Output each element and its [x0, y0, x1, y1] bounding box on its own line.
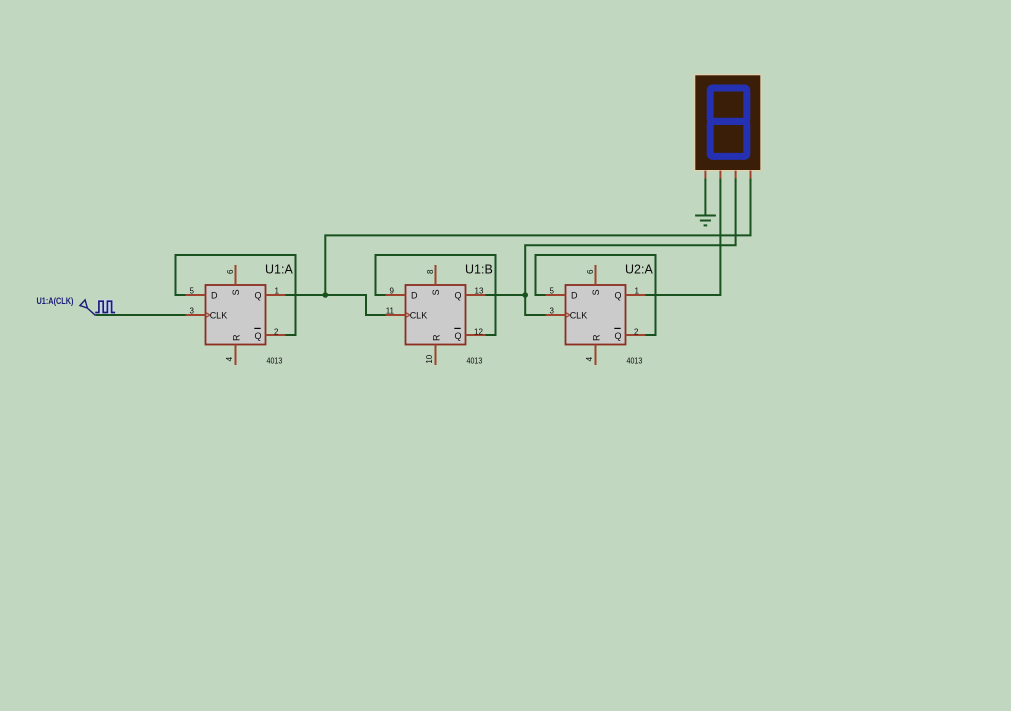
- wire U1:B Q-bar to D feedback loop: [376, 255, 496, 335]
- U1:B pin 11 CLK input stub: [386, 314, 406, 316]
- U2:A pin 3 CLK input stub: [546, 314, 566, 316]
- svg-text:U1:B: U1:B: [465, 263, 493, 277]
- svg-text:U1:A(CLK): U1:A(CLK): [37, 296, 74, 306]
- display pin stub 4: [750, 171, 752, 179]
- U1:A label Q-bar: [254, 328, 261, 340]
- wire display pin1 to ground: [704, 179, 706, 216]
- svg-text:Q: Q: [255, 291, 262, 301]
- U2:A pin 6 S set stub (top): [595, 265, 597, 285]
- display pin stub 3: [735, 171, 737, 179]
- wire U1:A Q-bar to D feedback loop: [176, 255, 296, 335]
- wire U1:A Q to U1:B CLK: [286, 295, 386, 315]
- svg-text:R: R: [231, 334, 241, 341]
- svg-text:5: 5: [550, 287, 555, 296]
- svg-text:13: 13: [475, 287, 484, 296]
- U1:A pin 5 D input stub: [186, 294, 206, 296]
- svg-text:3: 3: [190, 306, 195, 315]
- U1:B pin 12 Q-bar output stub: [466, 334, 486, 336]
- svg-text:CLK: CLK: [410, 311, 428, 321]
- U2:A label Q-bar: [614, 328, 621, 340]
- display pin stub 2: [719, 171, 721, 179]
- U1:B clock edge marker: [406, 313, 410, 318]
- svg-text:1: 1: [275, 287, 280, 296]
- svg-text:6: 6: [586, 269, 595, 274]
- U1:B pin 9 D input stub: [386, 294, 406, 296]
- svg-text:Q: Q: [255, 331, 262, 341]
- svg-text:R: R: [591, 334, 601, 341]
- svg-text:8: 8: [426, 269, 435, 274]
- svg-text:D: D: [411, 291, 418, 301]
- svg-text:3: 3: [550, 306, 555, 315]
- U2:A pin 1 Q output stub: [626, 294, 646, 296]
- svg-text:S: S: [591, 289, 601, 295]
- svg-text:4013: 4013: [627, 356, 643, 365]
- svg-text:2: 2: [634, 327, 639, 336]
- svg-text:9: 9: [390, 287, 395, 296]
- ground symbol: [695, 216, 716, 226]
- U2:A pin 5 D input stub: [546, 294, 566, 296]
- svg-text:U2:A: U2:A: [625, 263, 653, 277]
- svg-text:11: 11: [386, 306, 395, 315]
- svg-text:CLK: CLK: [210, 311, 228, 321]
- wire U2:A Q to display pin2: [646, 179, 721, 296]
- wire generator to U1:A CLK: [95, 314, 185, 316]
- U1:A pin 1 Q output stub: [266, 294, 286, 296]
- clock generator symbol triangle: [80, 300, 95, 315]
- 7-segment digit 8 upper loop (segments A,B,F,G): [710, 88, 747, 121]
- svg-text:4: 4: [225, 356, 234, 361]
- 7-segment display DISP1 body: [695, 75, 761, 171]
- svg-text:12: 12: [474, 327, 483, 336]
- svg-text:6: 6: [226, 269, 235, 274]
- svg-text:S: S: [431, 289, 441, 295]
- junction node Q0: [323, 292, 329, 298]
- svg-text:4: 4: [585, 356, 594, 361]
- U1:B pin 13 Q output stub: [466, 294, 486, 296]
- D flip-flop U1:A (4013): [206, 285, 266, 345]
- U1:B pin 10 R reset stub (bottom): [435, 345, 437, 366]
- U2:A pin 4 R reset stub (bottom): [595, 345, 597, 366]
- wire node Q0 to display pin4: [325, 179, 750, 296]
- U1:A pin 2 Q-bar output stub: [266, 334, 286, 336]
- clock generator waveform icon: [95, 301, 115, 312]
- svg-text:D: D: [211, 291, 218, 301]
- svg-text:Q: Q: [615, 291, 622, 301]
- svg-text:4013: 4013: [467, 356, 483, 365]
- wire U1:B Q to U2:A CLK: [486, 295, 546, 315]
- svg-text:10: 10: [425, 354, 434, 363]
- svg-text:CLK: CLK: [570, 311, 588, 321]
- svg-text:R: R: [431, 334, 441, 341]
- U1:A pin 3 CLK input stub: [186, 314, 206, 316]
- svg-text:Q: Q: [615, 331, 622, 341]
- display pin stub 1: [704, 171, 706, 179]
- U1:A clock edge marker: [206, 313, 210, 318]
- U2:A pin 2 Q-bar output stub: [626, 334, 646, 336]
- svg-text:Q: Q: [455, 291, 462, 301]
- U1:A pin 4 R reset stub (bottom): [235, 345, 237, 366]
- D flip-flop U2:A (4013): [566, 285, 626, 345]
- wire node Q1 to display pin3: [525, 179, 735, 296]
- svg-text:4013: 4013: [267, 356, 283, 365]
- U2:A clock edge marker: [566, 313, 570, 318]
- U1:B pin 8 S set stub (top): [435, 265, 437, 285]
- junction node Q1: [522, 292, 528, 298]
- svg-text:U1:A: U1:A: [265, 263, 293, 277]
- svg-text:D: D: [571, 291, 578, 301]
- U1:B label Q-bar: [454, 328, 461, 340]
- svg-text:5: 5: [190, 287, 195, 296]
- 7-segment digit 8 lower loop (segments C,D,E,G): [710, 121, 747, 156]
- svg-text:Q: Q: [455, 331, 462, 341]
- svg-text:S: S: [231, 289, 241, 295]
- svg-text:1: 1: [635, 287, 640, 296]
- U1:A pin 6 S set stub (top): [235, 265, 237, 285]
- D flip-flop U1:B (4013): [406, 285, 466, 345]
- wire U2:A Q-bar to D feedback loop: [536, 255, 656, 335]
- svg-text:2: 2: [274, 327, 279, 336]
